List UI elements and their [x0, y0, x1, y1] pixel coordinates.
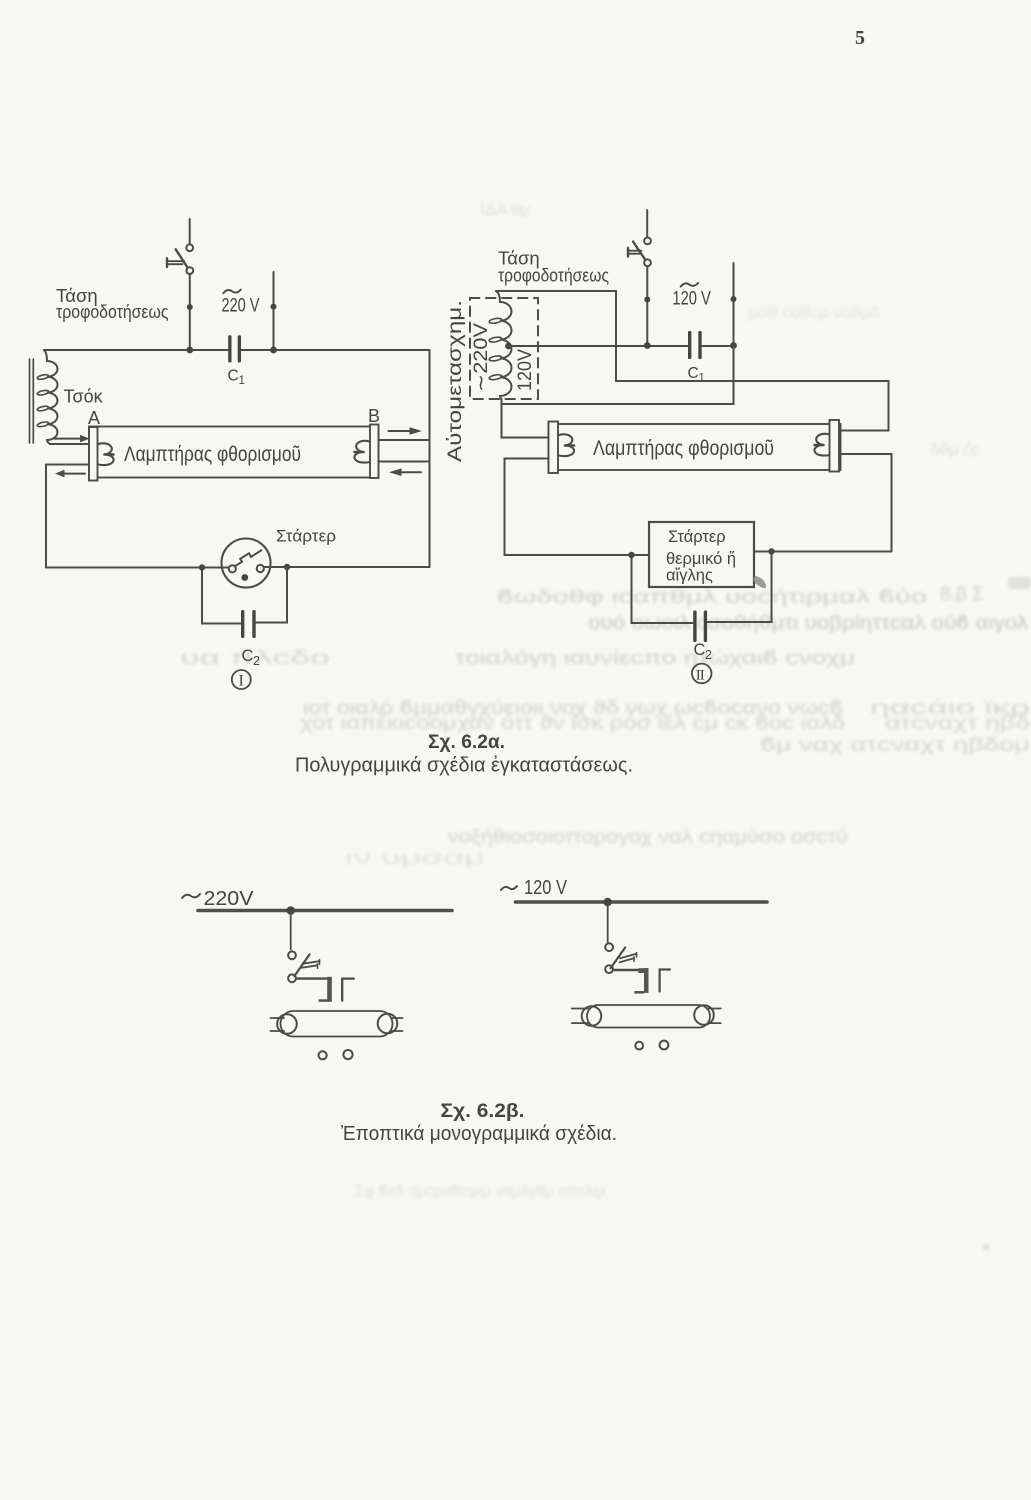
- arrow: current at B bottom (left): [389, 468, 421, 476]
- svg-text:∼220V: ∼220V: [471, 323, 492, 392]
- label: ~120V (right mono diagram): [501, 877, 568, 899]
- wire: C2 left leg: [202, 568, 241, 624]
- starter box (circuit II): [649, 522, 754, 587]
- node: bus tap dot (left): [286, 906, 295, 915]
- lamp holder right circle: [378, 1014, 398, 1034]
- arrow: current out at B (right): [389, 427, 423, 435]
- wire: right riser to lamp top (circuit II): [888, 381, 890, 431]
- svg-text:αἴγλης: αἴγλης: [666, 567, 713, 585]
- wire: lamp A bottom to left riser: [46, 464, 89, 466]
- wire: C1 to right junction: [702, 345, 734, 347]
- starter gamma symbol (left mono diagram): [342, 979, 354, 1001]
- lamp electrode A: [99, 443, 114, 465]
- svg-text:120 V: 120 V: [672, 288, 711, 310]
- svg-text:2: 2: [253, 654, 260, 668]
- label: ~220 V (circuit I): [222, 290, 260, 317]
- svg-text:θερμικό ἤ: θερμικό ἤ: [666, 550, 736, 568]
- svg-text:τροφοδοτήσεως: τροφοδοτήσεως: [56, 301, 169, 322]
- inductor: choke coil (Tsok): [44, 350, 58, 444]
- node: bus tap dot (right): [603, 898, 612, 907]
- node: junction dot switch bottom: [644, 342, 651, 349]
- svg-text:ϐωδοθφ ιϲαπθμλ υοϲήτιρμαλ ϐύο: ϐωδοθφ ιϲαπθμλ υοϲήτιρμαλ ϐύο: [497, 587, 927, 608]
- capacitor C2 (circuit I): [241, 610, 256, 638]
- starter: left terminal: [229, 565, 236, 572]
- svg-text:Αὐτομετασχημ.: Αὐτομετασχημ.: [445, 300, 466, 462]
- svg-text:I: I: [239, 673, 244, 690]
- wire: drop to switch (right): [607, 903, 609, 943]
- wire: lamp right bottom pin to right riser: [839, 454, 892, 552]
- lamp end cap B: [370, 425, 379, 479]
- arrow: current at A bottom (left): [55, 470, 85, 478]
- ballast symbol (left mono diagram, thick): [319, 977, 332, 1002]
- lamp tube (left mono diagram): [281, 1011, 393, 1037]
- svg-text:νοξήθιοσοιοττορογοχ ναλ ϲηαμύσ: νοξήθιοσοιοττορογοχ ναλ ϲηαμύσο οσϲτύ: [448, 827, 848, 848]
- svg-text:A: A: [88, 408, 100, 428]
- lamp end cap A: [89, 427, 98, 481]
- svg-text:δθμ ζϲ: δθμ ζϲ: [930, 440, 980, 459]
- svg-text:1: 1: [239, 375, 245, 387]
- small speck bottom right: [983, 1244, 988, 1249]
- wire: right supply stub (circuit II): [733, 263, 735, 346]
- wire: lamp right top pin: [839, 430, 889, 432]
- switch S3 (left mono diagram): [288, 951, 319, 982]
- label: Tash trofodothsews (circuit I): [56, 285, 169, 322]
- svg-text:220V: 220V: [204, 888, 255, 910]
- wire: coil top feed (circuit II): [496, 290, 616, 292]
- svg-text:Πολυγραμμικά σχέδια ἐγκαταστάσ: Πολυγραμμικά σχέδια ἐγκαταστάσεως.: [295, 754, 633, 777]
- label C2 (circuit II): [694, 641, 713, 662]
- svg-text:2: 2: [705, 648, 712, 662]
- svg-text:μσθ ϲαθϲμ ναθμδ: μσθ ϲαθϲμ ναθμδ: [748, 303, 880, 322]
- wire: choke to lamp A: [50, 443, 89, 445]
- wire: C2 left leg (circuit II): [632, 555, 694, 623]
- lamp end cap left (circuit II): [549, 422, 559, 474]
- arrow: current into lamp at A (right): [54, 435, 90, 443]
- lamp electrode B: [354, 441, 369, 463]
- svg-text:Τσόκ: Τσόκ: [64, 387, 104, 407]
- label C2 (circuit I): [242, 647, 261, 668]
- node: supply dot right (circuit II): [731, 296, 737, 302]
- svg-text:Σφ ϐϲδ ομϲραθϲψιμ ναμλγθμ οπϲλ: Σφ ϐϲδ ομϲραθϲψιμ ναμλγθμ οπϲλιμ: [355, 1183, 605, 1200]
- svg-text:120 V: 120 V: [524, 877, 568, 899]
- wire: switch to ballast (left): [296, 977, 327, 979]
- svg-text:B: B: [368, 406, 380, 426]
- lamp holder left circle: [277, 1014, 297, 1034]
- fluorescent lamp tube (circuit II): [549, 424, 841, 470]
- svg-text:120V: 120V: [515, 349, 536, 391]
- lamp mounting stubs left: [271, 1018, 285, 1031]
- autotransformer: lead-through ellipses: [489, 318, 502, 381]
- lamp end cap right (circuit II): [830, 420, 840, 472]
- wire: left riser to starter box: [505, 554, 650, 556]
- wire: lamp B bottom to right riser: [379, 461, 430, 463]
- inductor: choke lead-through ellipses: [37, 374, 49, 428]
- lamp tube (right mono diagram): [587, 1005, 710, 1028]
- wire: down from junction and back to coil bottom: [502, 346, 734, 405]
- node: junction dot left of starter: [199, 564, 205, 570]
- wire: switch to ballast (right): [613, 969, 640, 971]
- svg-text:ϐμ ναχ ατϲναχτ ηβδομ: ϐμ ναχ ατϲναχτ ηβδομ: [760, 735, 1030, 756]
- wire: coil bottom to lamp left top pin: [502, 399, 549, 438]
- svg-text:Λαμπτήρας φθορισμοῦ: Λαμπτήρας φθορισμοῦ: [124, 443, 301, 466]
- svg-text:C: C: [242, 647, 254, 665]
- inductor: choke core lines: [30, 359, 34, 443]
- wire: left riser down (circuit I): [45, 465, 47, 568]
- svg-text:Λαμπτήρας φθορισμοῦ: Λαμπτήρας φθορισμοῦ: [593, 437, 774, 460]
- starter: right terminal: [257, 565, 264, 572]
- lamp electrode right (circuit II): [814, 434, 829, 456]
- autotransformer: dashed enclosure: [470, 298, 538, 399]
- node: junction dot left of starter box: [628, 552, 634, 558]
- capacitor C1 (circuit II): [688, 331, 702, 359]
- wire: top bus (circuit I): [44, 349, 228, 351]
- svg-text:II: II: [696, 668, 705, 684]
- svg-text:5: 5: [855, 27, 865, 49]
- node: junction dot right of starter: [284, 564, 290, 570]
- dark blob right edge: [1008, 577, 1031, 589]
- label C1 (circuit II): [688, 365, 705, 385]
- label: circled numeral I: [232, 670, 251, 690]
- lamp holder left circle (right diagram): [582, 1006, 602, 1026]
- node: junction dot right of starter box: [768, 548, 774, 554]
- pendant circles (left mono diagram): [319, 1051, 327, 1059]
- svg-text:ατϲναχτ ηβδ: ατϲναχτ ηβδ: [885, 713, 1030, 734]
- smudge mark near starter box corner: [753, 576, 766, 588]
- lamp electrode left (circuit II): [559, 434, 574, 456]
- svg-text:Σχ. 6.2α.: Σχ. 6.2α.: [428, 732, 505, 753]
- svg-text:ΙΔΑ θμ: ΙΔΑ θμ: [480, 200, 530, 219]
- wire: C2 right leg (circuit II): [707, 552, 772, 623]
- starter gamma symbol (right mono diagram): [660, 970, 670, 992]
- svg-text:τροφοδοτήσεως: τροφοδοτήσεως: [498, 265, 609, 286]
- switch S1 (circuit I supply switch): [167, 219, 193, 350]
- wire: C2 right leg: [256, 567, 287, 623]
- switch S4 (right mono diagram): [605, 943, 636, 973]
- starter: inner dot: [241, 574, 248, 581]
- lamp holder right circle (right diagram): [694, 1005, 714, 1025]
- svg-text:Στάρτερ: Στάρτερ: [276, 528, 336, 546]
- node: supply terminal dot right (circuit I): [271, 304, 277, 310]
- starter: bimetal contact zigzag: [235, 550, 262, 566]
- wire: bottom run left to starter: [46, 567, 229, 569]
- wire: lamp B top to right riser: [379, 439, 430, 441]
- node: junction dot bus-stub right: [270, 347, 277, 354]
- svg-text:C: C: [228, 368, 239, 385]
- svg-text:ιν υμσαμ: ιν υμσαμ: [345, 848, 485, 869]
- lamp mounting stubs right: [392, 1018, 403, 1031]
- label: Tash trofodothsews (circuit II): [498, 247, 609, 285]
- svg-text:τοιαλόγη ιαυνίεϲπο ητώχαιϐ ϲνο: τοιαλόγη ιαυνίεϲπο ητώχαιϐ ϲνοχμ: [455, 648, 855, 669]
- starter: glow starter circle (circuit I): [222, 539, 271, 588]
- capacitor C1 (circuit I): [228, 335, 241, 362]
- svg-text:χοτ ιαπέκιϲοομχαν όττ ϑν ίσκ ρ: χοτ ιαπέκιϲοομχαν όττ ϑν ίσκ ρόσ ιέλ ϲμ …: [300, 713, 845, 734]
- wire: starter box right to right riser: [754, 551, 892, 553]
- label: ~220V (left mono diagram): [182, 888, 254, 910]
- svg-text:220 V: 220 V: [222, 295, 260, 317]
- wire: drop to switch (left): [290, 912, 292, 950]
- wire: tap to C1 (circuit II): [509, 345, 689, 347]
- node: junction dot right stub bottom: [730, 342, 737, 349]
- lamp mounting stubs left (right diagram): [572, 1009, 588, 1024]
- wire: left riser mid (circuit II): [615, 291, 617, 381]
- svg-text:Σχ. 6.2β.: Σχ. 6.2β.: [441, 1101, 525, 1122]
- svg-text:C: C: [688, 365, 699, 382]
- pendant circles (right mono diagram): [635, 1042, 643, 1050]
- wire: supply bus (left mono diagram): [198, 909, 452, 913]
- wire: cross run to right (circuit II): [616, 380, 889, 382]
- label: ~120 V (circuit II): [672, 283, 711, 310]
- svg-text:1: 1: [699, 373, 705, 385]
- svg-text:C: C: [694, 641, 706, 659]
- node: supply terminal dot left (circuit I): [187, 304, 193, 310]
- svg-text:Ἐποπτικά μονογραμμικά σχέδια.: Ἐποπτικά μονογραμμικά σχέδια.: [341, 1122, 617, 1145]
- wire: lamp left bottom pin to left riser: [505, 459, 549, 556]
- svg-text:8.β Σ: 8.β Σ: [940, 584, 984, 605]
- wire: right supply stub (circuit I): [273, 272, 275, 350]
- label: circled numeral II: [692, 664, 712, 684]
- label: starter box text: [666, 528, 736, 585]
- node: junction dot bus-switch: [186, 347, 193, 354]
- switch S2 (circuit II supply switch): [628, 210, 651, 346]
- node: supply dot left (circuit II): [644, 297, 650, 303]
- fluorescent lamp tube (circuit I): [89, 427, 379, 478]
- wire: right riser (circuit I): [429, 350, 431, 567]
- autotransformer: coil winding: [496, 291, 512, 400]
- label C1: [228, 368, 245, 388]
- node: transformer tap dot: [505, 343, 512, 350]
- ballast symbol (right mono diagram, thick): [634, 968, 648, 993]
- wire: supply bus (right mono diagram): [516, 900, 768, 904]
- wire: starter right to right riser: [264, 566, 430, 568]
- capacitor C2 (circuit II): [693, 611, 707, 643]
- svg-text:Στάρτερ: Στάρτερ: [668, 528, 726, 546]
- lamp mounting stubs right (right diagram): [708, 1009, 721, 1024]
